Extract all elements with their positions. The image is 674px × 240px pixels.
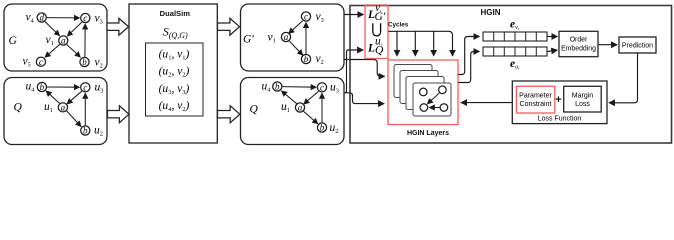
svg-text:Q: Q xyxy=(14,102,23,114)
node c v3 (G') xyxy=(301,12,310,22)
card node BL xyxy=(420,104,428,112)
svg-text:u4: u4 xyxy=(262,81,271,94)
svg-text:evi: evi xyxy=(510,18,520,31)
svg-text:a: a xyxy=(298,103,303,113)
svg-text:u2: u2 xyxy=(94,125,103,138)
svg-text:G′: G′ xyxy=(243,34,254,46)
wire a to b4 (Q) xyxy=(46,91,59,103)
wire c to a (Q) xyxy=(67,91,82,104)
node b u4 (Q) xyxy=(37,82,46,92)
wire c to a (G) xyxy=(68,22,82,36)
svg-text:c: c xyxy=(83,82,87,92)
svg-text:u3: u3 xyxy=(95,82,104,95)
panel Q2 box xyxy=(241,78,345,145)
card node BR xyxy=(440,104,448,112)
svg-text:Constraint: Constraint xyxy=(520,101,552,108)
node c v5 (G) xyxy=(36,57,45,67)
svg-text:u1: u1 xyxy=(281,101,290,114)
panel Q box xyxy=(4,78,107,145)
svg-text:b: b xyxy=(82,57,87,67)
wire b to c (G) xyxy=(84,24,86,57)
wire layers to vector2 xyxy=(458,52,479,83)
svg-text:HGIN Layers: HGIN Layers xyxy=(407,130,449,137)
svg-text:c: c xyxy=(39,57,43,67)
node c v3 (G) xyxy=(81,13,90,23)
svg-text:Parameter: Parameter xyxy=(519,93,552,100)
svg-text:Cycles: Cycles xyxy=(388,21,409,28)
block arrow G to DualSim xyxy=(107,18,129,35)
svg-text:G: G xyxy=(9,35,18,47)
svg-text:Embedding: Embedding xyxy=(561,45,596,52)
svg-text:b: b xyxy=(83,126,88,136)
svg-text:Prediction: Prediction xyxy=(622,43,653,50)
panel G box xyxy=(4,4,107,71)
node b u4 (Q2) xyxy=(273,82,282,92)
union symbol xyxy=(373,23,381,36)
wire a to b2 (Q) xyxy=(66,111,81,127)
wire a to b (G') xyxy=(289,41,302,55)
HGIN outer box xyxy=(350,6,672,144)
wire a to b (G) xyxy=(67,45,81,57)
wire c to a (Q2) xyxy=(304,91,319,104)
layer card back 2 xyxy=(400,71,438,104)
wire G' to L box xyxy=(345,14,364,16)
svg-text:Margin: Margin xyxy=(572,93,594,100)
DualSim box xyxy=(129,4,217,143)
svg-text:eui: eui xyxy=(510,58,520,71)
svg-text:v3: v3 xyxy=(95,12,103,25)
card edge BR to BL xyxy=(430,107,441,109)
cycles drop 1 xyxy=(396,31,398,55)
svg-text:S(Q,G): S(Q,G) xyxy=(163,27,188,40)
wire Q to HGIN layers xyxy=(345,93,384,104)
wire b4 to c (Q) xyxy=(47,86,79,88)
DualSim inner box xyxy=(146,43,204,116)
wire prediction to loss function xyxy=(609,53,637,103)
svg-text:+: + xyxy=(555,94,561,106)
svg-text:(u3, v3): (u3, v3) xyxy=(159,83,190,96)
svg-text:L: L xyxy=(367,42,375,54)
node c u3 (Q) xyxy=(81,82,90,92)
vector 1 xyxy=(483,32,547,41)
card node TR xyxy=(439,86,447,94)
order embedding box xyxy=(559,31,598,56)
svg-text:u1: u1 xyxy=(44,101,53,114)
node b u2 (Q) xyxy=(81,126,90,136)
wire b to c (G') xyxy=(305,23,307,54)
svg-text:Loss: Loss xyxy=(575,101,590,108)
svg-text:v2: v2 xyxy=(95,57,103,70)
svg-text:HGIN: HGIN xyxy=(481,8,501,17)
svg-text:Q: Q xyxy=(375,44,384,56)
label L G' xyxy=(367,2,386,23)
prediction box xyxy=(619,37,656,53)
wire a to b2 (Q2) xyxy=(303,111,317,123)
svg-text:u4: u4 xyxy=(26,81,35,94)
L union box (red) xyxy=(365,5,388,59)
wire Q to L box xyxy=(345,50,363,93)
svg-text:(u4, v2): (u4, v2) xyxy=(159,100,190,113)
wire c to a (G') xyxy=(289,21,303,33)
wire layers to vector1 xyxy=(458,37,479,75)
svg-text:v3: v3 xyxy=(316,11,324,24)
svg-text:Order: Order xyxy=(570,36,588,43)
svg-text:DualSim: DualSim xyxy=(160,9,191,18)
svg-text:(u1, v1): (u1, v1) xyxy=(159,49,190,62)
wire d to a (G) xyxy=(45,22,60,36)
loss function box xyxy=(512,81,607,124)
panel G' box xyxy=(241,4,345,71)
svg-text:c: c xyxy=(320,82,324,92)
svg-text:v1: v1 xyxy=(46,34,54,47)
svg-text:b: b xyxy=(40,82,45,92)
wire b4 to c (Q2) xyxy=(282,86,316,89)
wire a to c5 (G) xyxy=(45,44,60,57)
cycles drop 3 xyxy=(433,31,435,55)
svg-text:v2: v2 xyxy=(316,53,324,66)
parameter constraint box (red) xyxy=(516,86,554,113)
svg-text:c: c xyxy=(83,13,87,23)
svg-text:d: d xyxy=(39,13,44,23)
layer card back 1 xyxy=(394,65,432,98)
wire order embedding to prediction xyxy=(598,44,617,46)
svg-text:v4: v4 xyxy=(26,12,34,25)
svg-text:a: a xyxy=(284,32,289,42)
svg-text:v5: v5 xyxy=(23,55,31,68)
node c u3 (Q2) xyxy=(317,82,326,92)
wire d to c (G) xyxy=(47,17,79,19)
HGIN layers box (red) xyxy=(388,60,458,125)
vector 2 xyxy=(483,47,547,56)
wire G' to HGIN layers xyxy=(345,60,385,77)
block arrow DualSim to G' xyxy=(218,18,240,35)
svg-text:a: a xyxy=(61,36,66,46)
node b u2 (Q2) xyxy=(317,123,326,133)
svg-text:G′: G′ xyxy=(375,11,386,23)
layer card front xyxy=(413,83,451,116)
svg-text:b: b xyxy=(275,82,280,92)
layer card back 3 xyxy=(406,77,444,110)
svg-text:(u2, v2): (u2, v2) xyxy=(159,66,190,79)
node a u1 (Q) xyxy=(58,102,67,112)
node d (G) xyxy=(37,13,46,23)
node a v1 (G') xyxy=(281,32,290,42)
svg-text:v1: v1 xyxy=(268,32,276,45)
block arrow DualSim to Q xyxy=(218,106,240,123)
label L Q xyxy=(367,36,384,57)
card edge TR to BL xyxy=(428,93,440,104)
wire vector1 to order embedding xyxy=(547,36,557,38)
svg-text:Q: Q xyxy=(250,104,259,116)
svg-text:u3: u3 xyxy=(330,82,339,95)
wire b2 to c (Q2) xyxy=(321,94,323,123)
node b v2 (G') xyxy=(301,54,310,64)
svg-text:b: b xyxy=(320,123,325,133)
node a v1 (G) xyxy=(59,36,68,46)
svg-text:Loss Function: Loss Function xyxy=(538,116,582,123)
svg-text:b: b xyxy=(304,54,309,64)
wire vector2 to order embedding xyxy=(547,50,557,51)
cycles distribution wire xyxy=(388,31,452,55)
margin loss box xyxy=(564,86,602,112)
card node TL xyxy=(420,88,428,96)
node b v2 (G) xyxy=(80,57,89,67)
svg-text:c: c xyxy=(304,12,308,22)
svg-text:u2: u2 xyxy=(330,122,339,135)
node a u1 (Q2) xyxy=(295,103,304,113)
wire a to b4 (Q2) xyxy=(282,91,297,104)
block arrow Q to DualSim xyxy=(108,106,130,123)
wire loss function to layers (feedback) xyxy=(461,102,512,104)
svg-text:a: a xyxy=(61,102,66,112)
cycles drop 2 xyxy=(414,31,416,55)
wire b2 to c (Q) xyxy=(84,94,86,126)
